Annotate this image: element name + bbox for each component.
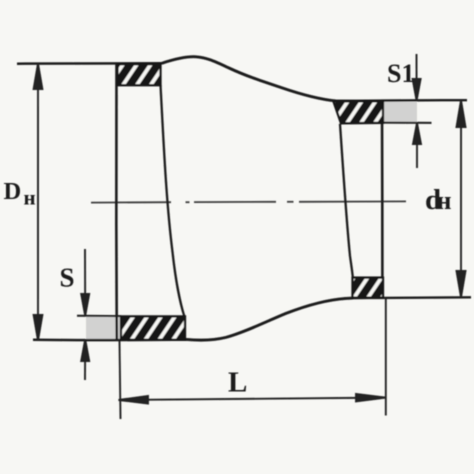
grey pipe stub top-right [384, 102, 418, 123]
dimension L line [119, 394, 387, 404]
wire: right end face [381, 101, 384, 298]
wire: top outer line (extension + flange top) [17, 62, 163, 65]
dimension dn line [457, 100, 466, 297]
svg-text:н: н [437, 186, 452, 215]
grey pipe stub bottom-left [86, 317, 122, 340]
wire: bottom outer line (extension + flange bottom) [33, 338, 190, 341]
wire: left inner weld line [161, 85, 185, 316]
svg-text:S1: S1 [387, 59, 414, 88]
dimension S lines [81, 249, 89, 380]
wire: inner surface tick top-right (for S1) [384, 122, 432, 124]
wire: L extension left [120, 341, 121, 419]
wire: top reducer curve [162, 57, 355, 102]
centerline [91, 201, 406, 202]
svg-text:D: D [4, 178, 22, 205]
label dn [425, 184, 452, 216]
wire: right inner weld line [340, 124, 353, 277]
wire: bottom-right line (flange bottom + extension) [344, 297, 471, 298]
wire: L extension right [385, 299, 387, 416]
node: wall section top-right (hatched trapezoid) [334, 101, 384, 123]
svg-text:S: S [60, 263, 75, 293]
dimension S1 lines [413, 54, 421, 168]
wire: bottom reducer curve [186, 298, 353, 340]
svg-text:н: н [24, 186, 36, 210]
wire: inner surface tick bottom-left (for S) [77, 315, 121, 317]
node: wall section bottom-left (hatched) [121, 316, 185, 339]
wire: left end face [115, 63, 118, 340]
dimension Dn line [34, 64, 43, 341]
label Dn [4, 178, 36, 209]
wire: top-right line (flange top + extension to dn dim) [334, 99, 467, 102]
node: wall section top-left (hatched) [118, 64, 161, 85]
svg-text:L: L [228, 367, 247, 399]
node: wall section bottom-right (hatched) [353, 278, 384, 298]
